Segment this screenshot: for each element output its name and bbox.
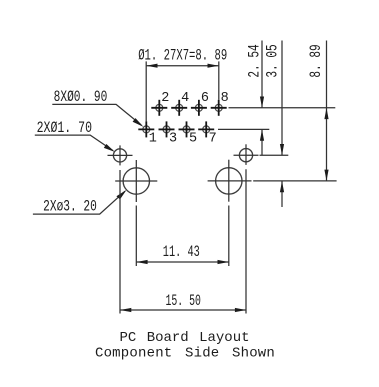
leader 2X1.70 xyxy=(35,135,113,151)
pin number 4 xyxy=(181,91,189,106)
dimension 11.43 line xyxy=(136,261,229,263)
pin number 7 xyxy=(209,132,217,147)
pad pin8 xyxy=(215,104,222,111)
arrowhead 15.50 left xyxy=(120,308,131,312)
pin number 2 xyxy=(161,91,169,106)
leader 8X0.90 xyxy=(52,104,141,125)
dimension 8.89 text xyxy=(307,44,325,77)
extension down from 1.70 left xyxy=(119,170,121,314)
pad pin7 xyxy=(203,126,210,133)
svg-text:PC Board Layout: PC Board Layout xyxy=(119,330,249,346)
extension down from 3.20 left xyxy=(135,206,137,267)
pad pin1 xyxy=(143,126,150,133)
arrowhead 8.89 down xyxy=(324,170,328,181)
arrowhead leader 2X1.70 xyxy=(104,144,115,152)
pad pin5 xyxy=(183,126,190,133)
dimension 2.54 text xyxy=(246,44,264,77)
big hole row extension line right xyxy=(253,180,336,182)
extension down from 1.70 right xyxy=(245,169,247,313)
odd row extension line xyxy=(218,128,269,130)
svg-text:Component Side Shown: Component Side Shown xyxy=(95,345,275,361)
arrowhead 11.43 left xyxy=(136,260,147,264)
pin number 6 xyxy=(201,91,209,106)
centerlines hole 1.70 right xyxy=(234,144,259,165)
label 2X(dia)1.70 xyxy=(37,119,92,137)
pin number 3 xyxy=(169,132,177,147)
dimension 3.05 text xyxy=(264,44,282,77)
hole 1.70 right xyxy=(239,149,252,162)
svg-text:6: 6 xyxy=(201,91,209,106)
dimension text O1.27X7=8.89 xyxy=(138,46,227,64)
hole row extension line right xyxy=(260,154,289,156)
svg-text:3. 05: 3. 05 xyxy=(264,44,282,77)
extension line pin1 column xyxy=(145,61,147,121)
title line 1 xyxy=(119,330,249,346)
arrowhead 2.54 down xyxy=(260,97,264,108)
arrowhead 3.05 down xyxy=(280,144,284,155)
dimension line 1.27X7 xyxy=(146,65,219,67)
svg-text:8: 8 xyxy=(221,91,229,106)
hole 3.20 left xyxy=(123,168,149,194)
pad pin2 xyxy=(156,104,163,111)
dimension 2.54 upper line xyxy=(261,41,263,108)
svg-text:2: 2 xyxy=(161,91,169,106)
title line 2 xyxy=(95,345,275,361)
centerlines hole 1.70 left xyxy=(108,145,133,165)
svg-text:11. 43: 11. 43 xyxy=(163,243,200,261)
hole 3.20 right xyxy=(216,168,242,194)
pad pin4 xyxy=(176,104,183,111)
pad pin6 xyxy=(195,104,202,111)
dimension 8.89 line xyxy=(326,41,328,181)
dimension 15.50 line xyxy=(120,309,246,311)
centerlines hole 3.20 right xyxy=(208,160,252,202)
svg-text:15. 50: 15. 50 xyxy=(166,292,201,310)
extension down from 3.20 right xyxy=(228,206,230,267)
arrowhead leader 2X3.20 xyxy=(116,190,126,200)
svg-text:2Xø3. 20: 2Xø3. 20 xyxy=(43,197,97,215)
centerlines hole 3.20 left xyxy=(115,160,157,202)
svg-text:8. 89: 8. 89 xyxy=(307,44,325,77)
svg-text:1: 1 xyxy=(149,132,157,147)
arrowhead 3.05 up xyxy=(280,181,284,192)
pin number 1 xyxy=(149,132,157,147)
arrowhead 15.50 right xyxy=(235,308,246,312)
svg-text:3: 3 xyxy=(169,132,177,147)
leader 2X3.20 xyxy=(33,191,125,214)
arrowhead 2.54 up xyxy=(260,129,264,140)
svg-text:7: 7 xyxy=(209,132,217,147)
arrowhead top-dim left xyxy=(146,64,157,68)
pin number 5 xyxy=(189,132,197,147)
arrowhead 11.43 right xyxy=(218,260,229,264)
dimension 3.05 line xyxy=(281,41,283,156)
svg-text:Ø1. 27X7=8. 89: Ø1. 27X7=8. 89 xyxy=(138,46,227,64)
arrowhead top-dim right xyxy=(208,64,219,68)
svg-text:8XØ0. 90: 8XØ0. 90 xyxy=(54,88,108,106)
svg-text:4: 4 xyxy=(181,91,189,106)
pad pin3 xyxy=(163,126,170,133)
arrowhead leader 8X0.90 xyxy=(133,118,144,127)
dimension 11.43 text xyxy=(163,243,200,261)
label 2X(dia)3.20 xyxy=(43,197,97,215)
dimension 15.50 text xyxy=(166,292,201,310)
svg-text:5: 5 xyxy=(189,132,197,147)
dimension 2.54 lower line xyxy=(261,129,263,155)
hole 1.70 left xyxy=(113,149,126,162)
dimension 3.05 lower arrow line xyxy=(281,181,283,207)
label 8X(dia)0.90 xyxy=(54,88,108,106)
extension line pin8 column xyxy=(218,61,220,99)
arrowhead 8.89 up xyxy=(324,108,328,119)
pin number 8 xyxy=(221,91,229,106)
svg-text:2XØ1. 70: 2XØ1. 70 xyxy=(37,119,92,137)
even row extension line xyxy=(229,107,336,109)
svg-text:2. 54: 2. 54 xyxy=(246,44,264,77)
